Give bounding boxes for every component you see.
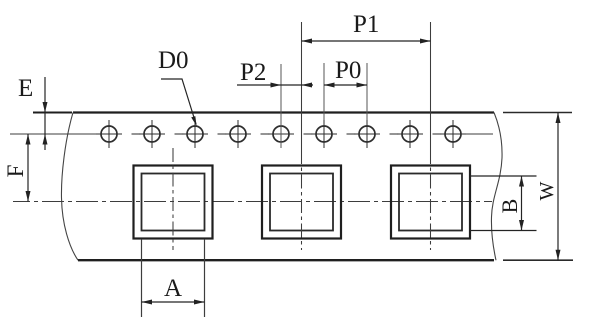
dimension P0 [324,57,367,120]
svg-text:P0: P0 [335,57,361,84]
pocket 3 centerline / P1 extension [430,22,432,150]
svg-text:P1: P1 [353,11,379,38]
svg-text:F: F [3,165,28,178]
sprocket hole 9 [440,120,466,148]
sprocket hole 3 [182,120,208,148]
right break curve [491,113,502,261]
dimension P1 [302,11,431,44]
sprocket hole 8 [397,120,423,148]
dimension A [142,239,205,317]
sprocket hole 5 [268,120,294,148]
sprocket hole 4 [225,120,251,148]
dimension F [3,134,31,202]
sprocket hole 2 [139,120,165,148]
dimension W [503,113,573,261]
pocket centerline [13,201,492,203]
svg-text:A: A [164,275,182,302]
label D0 with leader [158,47,197,126]
svg-text:B: B [497,199,522,214]
sprocket hole centerline [10,133,493,135]
pocket 1 [134,148,213,250]
sprocket hole 7 [354,120,380,148]
dimension P2 [237,59,313,148]
pocket 2 [262,166,341,239]
svg-text:P2: P2 [240,59,266,86]
left break curve [61,113,78,261]
svg-text:D0: D0 [158,47,189,74]
sprocket hole 6 [311,120,337,148]
dimension E [18,75,72,150]
dimension B [470,176,537,231]
svg-text:E: E [18,75,33,102]
pocket 2 centerline / P1 extension [301,22,303,150]
sprocket hole 1 [96,120,122,148]
pocket 3 [391,166,470,239]
tape top edge [73,111,494,113]
tape bottom edge [78,259,494,261]
svg-text:W: W [536,181,558,200]
